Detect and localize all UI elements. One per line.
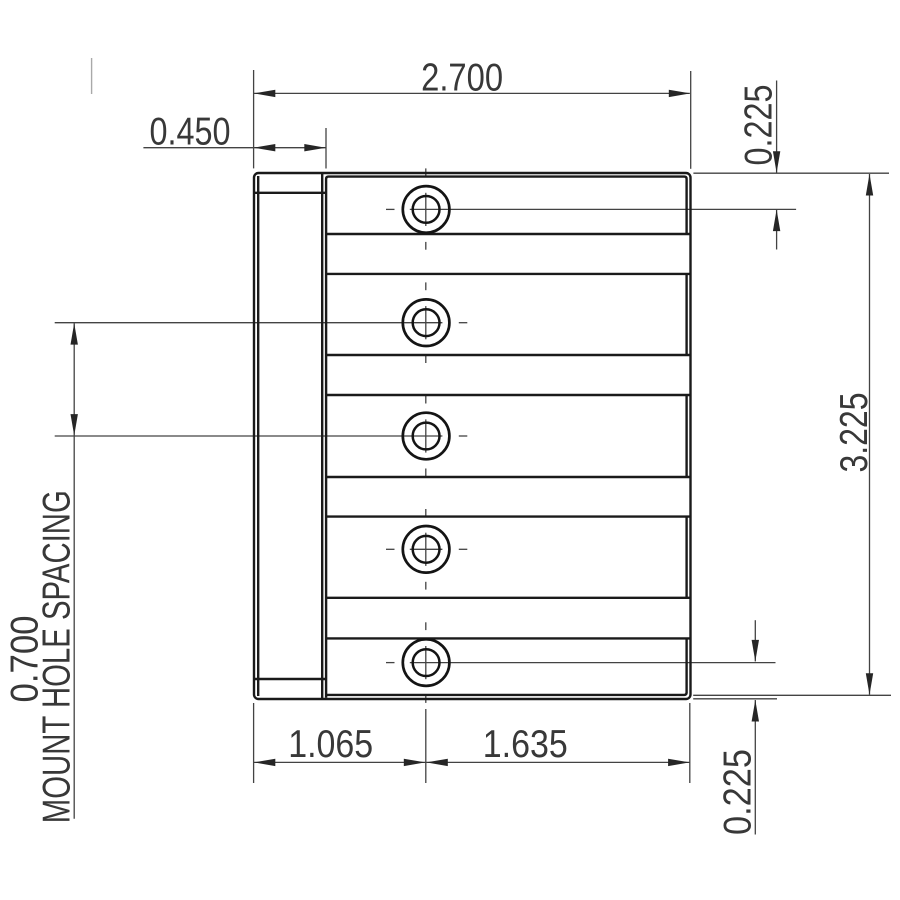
svg-text:1.635: 1.635 [483, 723, 568, 766]
svg-text:0.225: 0.225 [737, 85, 780, 166]
svg-text:0.450: 0.450 [150, 111, 231, 154]
svg-text:1.065: 1.065 [288, 723, 373, 766]
svg-text:3.225: 3.225 [833, 393, 876, 473]
svg-text:2.700: 2.700 [421, 57, 503, 100]
svg-text:MOUNT HOLE SPACING: MOUNT HOLE SPACING [36, 490, 79, 823]
svg-text:0.225: 0.225 [717, 749, 760, 835]
